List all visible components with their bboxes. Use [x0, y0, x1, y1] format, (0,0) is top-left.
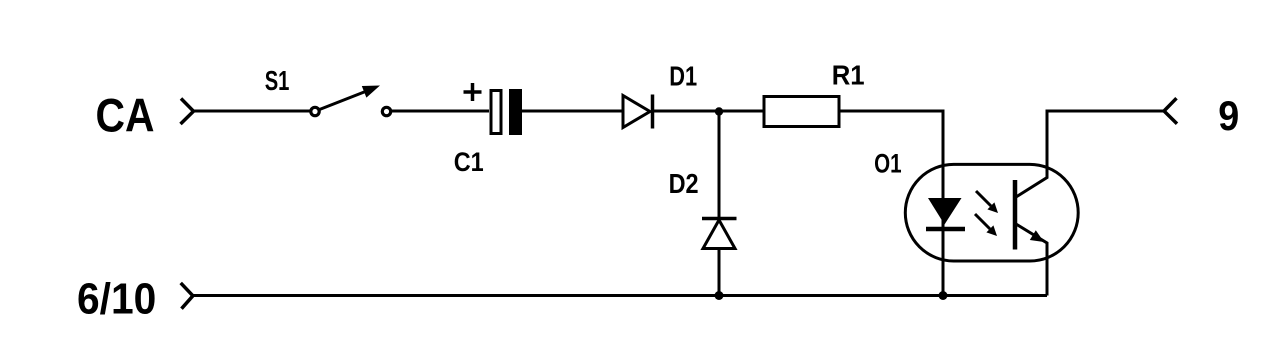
svg-text:O1: O1	[874, 149, 902, 179]
svg-text:9: 9	[1218, 92, 1239, 139]
svg-text:S1: S1	[265, 65, 290, 96]
svg-text:D1: D1	[669, 61, 697, 92]
svg-text:R1: R1	[832, 59, 865, 90]
svg-text:CA: CA	[96, 89, 155, 142]
svg-text:6/10: 6/10	[77, 276, 156, 324]
svg-text:C1: C1	[454, 147, 484, 177]
svg-text:D2: D2	[669, 168, 699, 199]
